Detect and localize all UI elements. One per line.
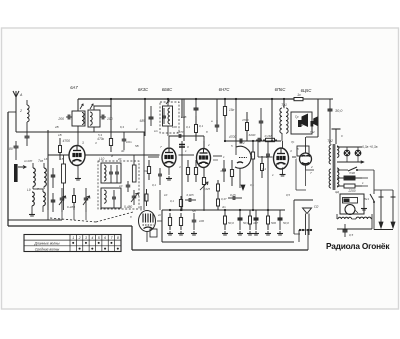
svg-text:А: А <box>19 93 23 97</box>
svg-text:03: 03 <box>144 169 148 173</box>
svg-text:4т: 4т <box>222 205 227 209</box>
svg-text:1т: 1т <box>154 129 159 133</box>
svg-text:6Н7С: 6Н7С <box>219 87 231 92</box>
svg-text:0,025: 0,025 <box>187 193 194 197</box>
svg-text:500: 500 <box>271 221 276 225</box>
svg-text:5-480: 5-480 <box>124 205 132 209</box>
svg-text:2: 2 <box>78 236 81 240</box>
svg-text:6Б8С: 6Б8С <box>162 87 173 92</box>
svg-text:200: 200 <box>57 117 64 121</box>
svg-text:0,1: 0,1 <box>186 125 191 129</box>
svg-text:ст: ст <box>24 159 28 163</box>
svg-text:4700: 4700 <box>242 118 249 122</box>
svg-text:Средние волны: Средние волны <box>35 247 60 251</box>
svg-text:5В: 5В <box>135 144 139 148</box>
svg-text:0,47: 0,47 <box>221 197 227 201</box>
svg-text:Длинные волны: Длинные волны <box>33 242 60 246</box>
svg-text:3: 3 <box>82 141 84 145</box>
svg-text:L9: L9 <box>27 188 31 192</box>
svg-text:10т: 10т <box>126 140 132 144</box>
svg-text:Тсв: Тсв <box>38 159 43 163</box>
svg-text:0,1: 0,1 <box>199 124 204 128</box>
svg-text:30,0: 30,0 <box>335 109 343 113</box>
svg-text:685: 685 <box>140 119 146 123</box>
svg-text:Гр: Гр <box>295 115 299 119</box>
svg-text:30: 30 <box>121 149 125 153</box>
svg-text:5,3: 5,3 <box>98 133 102 137</box>
svg-text:50,0: 50,0 <box>283 221 289 225</box>
svg-text:1В: 1В <box>58 133 62 137</box>
svg-text:6: 6 <box>104 236 106 240</box>
svg-text:3: 3 <box>85 236 87 240</box>
svg-text:2т: 2т <box>157 213 163 217</box>
svg-text:50,0: 50,0 <box>228 221 234 225</box>
svg-text:П2: П2 <box>314 205 318 209</box>
svg-text:4700: 4700 <box>229 135 236 139</box>
svg-text:2200: 2200 <box>347 189 355 193</box>
svg-text:0,1: 0,1 <box>152 183 156 187</box>
svg-text:ст: ст <box>28 159 33 163</box>
svg-text:100: 100 <box>199 219 204 223</box>
svg-text:0,1: 0,1 <box>262 167 266 171</box>
svg-text:0,025: 0,025 <box>203 187 210 191</box>
svg-text:6Ц5С: 6Ц5С <box>301 88 313 93</box>
svg-text:+470: +470 <box>177 130 184 134</box>
svg-text:10: 10 <box>119 184 123 188</box>
svg-text:6К3С: 6К3С <box>138 87 149 92</box>
svg-text:8: 8 <box>117 236 119 240</box>
svg-text:ПЭВ: ПЭВ <box>349 171 355 175</box>
svg-text:6200: 6200 <box>249 133 256 137</box>
svg-text:5: 5 <box>98 236 100 240</box>
svg-text:Радиола Огонёк: Радиола Огонёк <box>326 241 390 251</box>
svg-text:1v: 1v <box>297 93 301 97</box>
svg-text:2: 2 <box>242 141 245 145</box>
svg-text:6П6С: 6П6С <box>275 87 287 92</box>
svg-text:0,25: 0,25 <box>230 193 236 197</box>
svg-text:0,1: 0,1 <box>250 183 254 187</box>
svg-text:1: 1 <box>72 236 74 240</box>
svg-text:Вк1: Вк1 <box>364 197 369 201</box>
svg-text:4: 4 <box>91 236 93 240</box>
svg-text:2: 2 <box>265 155 268 159</box>
svg-text:50,0: 50,0 <box>243 221 249 225</box>
svg-text:Тр2: Тр2 <box>327 139 333 143</box>
svg-text:6,3в +0,3в: 6,3в +0,3в <box>362 145 378 149</box>
svg-text:Гр1: Гр1 <box>299 123 304 127</box>
svg-text:L10: L10 <box>99 157 105 161</box>
svg-text:0,5: 0,5 <box>349 233 354 237</box>
svg-text:2: 2 <box>19 109 22 113</box>
svg-text:6,3: 6,3 <box>120 125 124 129</box>
svg-text:Тр: Тр <box>291 140 295 144</box>
svg-text:15н: 15н <box>229 108 235 112</box>
svg-text:100: 100 <box>107 117 113 121</box>
svg-text:10: 10 <box>164 193 168 197</box>
svg-text:Гр2: Гр2 <box>310 130 315 134</box>
svg-text:0,1: 0,1 <box>170 199 174 203</box>
svg-text:2: 2 <box>310 165 313 169</box>
svg-text:L5: L5 <box>60 157 64 161</box>
svg-text:4700: 4700 <box>62 139 70 143</box>
svg-text:2: 2 <box>207 143 210 147</box>
svg-text:0,1М: 0,1М <box>265 134 272 138</box>
svg-text:6А7: 6А7 <box>70 85 78 90</box>
svg-text:80: 80 <box>9 147 13 151</box>
svg-text:L6: L6 <box>44 157 48 161</box>
svg-text:470к: 470к <box>97 137 104 141</box>
svg-text:5т: 5т <box>192 209 197 213</box>
svg-text:20: 20 <box>117 157 122 161</box>
svg-text:2В: 2В <box>54 125 59 129</box>
svg-text:100: 100 <box>172 125 177 129</box>
svg-text:0,5: 0,5 <box>286 193 290 197</box>
